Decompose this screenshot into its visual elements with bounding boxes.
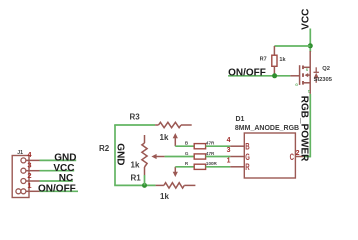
wire net VCC at J1 pin3 — [40, 170, 75, 172]
svg-text:R7: R7 — [260, 57, 267, 63]
connector J1 — [12, 150, 39, 198]
svg-text:R3: R3 — [130, 113, 141, 122]
svg-text:G: G — [245, 152, 250, 162]
wire net ON/OFF at J1 pin1 — [40, 190, 79, 192]
potentiometer R2 — [99, 135, 165, 175]
svg-text:GND: GND — [114, 143, 125, 165]
svg-text:2: 2 — [27, 171, 31, 180]
svg-text:1: 1 — [27, 181, 31, 190]
svg-text:RGB_POWER: RGB_POWER — [298, 96, 309, 162]
svg-text:G: G — [295, 83, 298, 87]
wire GND vertical bus — [114, 125, 116, 185]
svg-text:G: G — [185, 151, 189, 156]
wire GND to R1 — [114, 184, 155, 186]
svg-text:C: C — [290, 152, 295, 162]
resistor G 47R — [185, 151, 215, 159]
svg-text:8MM_ANODE_RGB: 8MM_ANODE_RGB — [235, 125, 299, 132]
wire B to D1 — [206, 145, 231, 147]
svg-text:B: B — [245, 142, 250, 152]
resistor R 100R — [185, 161, 218, 169]
svg-text:4: 4 — [227, 137, 231, 144]
svg-text:D1: D1 — [236, 116, 245, 123]
wire net GND at J1 pin4 — [40, 159, 77, 161]
svg-text:1k: 1k — [160, 133, 169, 142]
potentiometer R1 — [131, 167, 196, 201]
wire net NC at J1 pin2 — [40, 180, 73, 182]
svg-text:ON/OFF: ON/OFF — [38, 184, 76, 195]
wire R2 bottom to GND — [144, 175, 146, 185]
junction node at R2 bottom — [142, 183, 147, 188]
wire G to D1 — [206, 156, 231, 158]
svg-text:J1: J1 — [17, 150, 23, 156]
junction node ON/OFF / R7 — [272, 73, 277, 78]
svg-text:47R: 47R — [206, 151, 215, 156]
svg-text:47R: 47R — [206, 141, 215, 146]
wire RGB_POWER to D1 pin2 — [304, 156, 312, 158]
svg-text:1k: 1k — [160, 192, 169, 201]
svg-text:1k: 1k — [279, 57, 286, 63]
junction node VCC / R7 — [308, 43, 313, 48]
wire net R from R1 wiper — [175, 166, 194, 168]
LED D1 8MM_ANODE_RGB — [227, 116, 304, 178]
wire net ON/OFF to Q2 gate — [228, 75, 290, 77]
wire RGB_POWER vertical — [309, 94, 311, 157]
wire net G from R2 wiper — [165, 156, 195, 158]
wire GND to R3 — [114, 124, 155, 126]
svg-text:1: 1 — [227, 157, 231, 164]
svg-text:R2: R2 — [99, 144, 110, 153]
wire VCC vertical — [309, 29, 311, 53]
potentiometer R3 — [130, 113, 192, 147]
svg-text:R1: R1 — [131, 173, 142, 182]
svg-text:ON/OFF: ON/OFF — [228, 67, 266, 78]
svg-text:3: 3 — [27, 161, 31, 170]
svg-text:VCC: VCC — [301, 9, 312, 30]
svg-text:3: 3 — [227, 147, 231, 154]
svg-text:SI2305: SI2305 — [314, 77, 333, 83]
resistor R7 1k — [260, 46, 287, 76]
wire net B from R3 wiper — [175, 145, 194, 147]
resistor B 47R — [185, 141, 215, 149]
svg-text:1k: 1k — [131, 161, 140, 170]
svg-text:100R: 100R — [206, 161, 218, 166]
wire R to D1 — [206, 166, 231, 168]
svg-text:Q2: Q2 — [322, 66, 330, 72]
svg-text:R: R — [245, 162, 250, 172]
wire R7 top to VCC — [274, 45, 310, 47]
transistor Q2 SI2305 p-mosfet — [290, 51, 332, 94]
